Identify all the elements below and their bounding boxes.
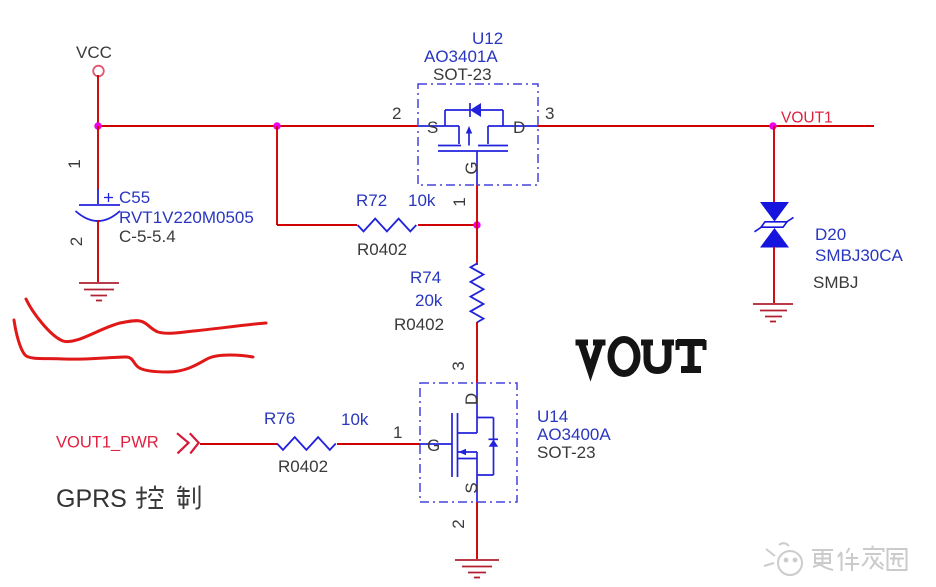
wire C55 bottom — [97, 220, 99, 282]
port chevrons — [177, 433, 199, 453]
U14 dashed box — [420, 383, 517, 502]
svg-text:R72: R72 — [356, 191, 387, 210]
svg-text:VOUT1_PWR: VOUT1_PWR — [56, 434, 159, 452]
transistor U12 arrow — [466, 126, 472, 134]
svg-text:10k: 10k — [341, 410, 369, 429]
svg-text:1: 1 — [393, 423, 402, 442]
ground D20 — [753, 304, 793, 322]
svg-text:SMBJ: SMBJ — [813, 273, 858, 292]
svg-text:R74: R74 — [410, 268, 441, 287]
svg-text:VCC: VCC — [76, 43, 112, 62]
wire R74 to U14 — [476, 322, 478, 383]
resistor R76 — [277, 437, 336, 450]
node junction R72 branch — [273, 122, 280, 129]
capacitor C55 — [76, 189, 121, 221]
wire main bus right — [538, 125, 874, 127]
svg-text:C55: C55 — [119, 188, 150, 207]
ground C55 — [79, 283, 119, 301]
annotation squiggle upper — [26, 299, 266, 342]
svg-text:SOT-23: SOT-23 — [537, 443, 596, 462]
annotation squiggle lower — [14, 320, 253, 372]
svg-text:G: G — [462, 161, 481, 174]
wire port to R76 — [200, 443, 277, 445]
wire D20 to ground — [773, 247, 775, 303]
svg-text:AO3400A: AO3400A — [537, 425, 611, 444]
wire R72 to node — [418, 224, 477, 226]
U12 dashed box — [418, 84, 538, 185]
svg-text:3: 3 — [545, 104, 554, 123]
svg-text:U14: U14 — [537, 407, 568, 426]
transistor U14 body diode triangle — [489, 440, 499, 447]
power port VCC — [76, 43, 112, 76]
svg-text:VOUT1: VOUT1 — [781, 110, 833, 127]
svg-text:G: G — [427, 436, 440, 455]
svg-text:U12: U12 — [472, 29, 503, 48]
wire U14 source to ground — [476, 502, 478, 559]
ground U14 — [455, 560, 499, 578]
svg-text:SOT-23: SOT-23 — [433, 65, 492, 84]
diode D20 TVS — [755, 202, 794, 248]
wire node to R74 — [476, 225, 478, 265]
svg-text:S: S — [427, 118, 438, 137]
node junction VCC — [94, 122, 101, 129]
transistor U12 body diode triangle — [470, 103, 481, 117]
node junction VOUT1 — [769, 122, 776, 129]
wire VCC drop — [97, 75, 99, 126]
transistor U12 body — [418, 103, 538, 185]
node gate junction — [473, 221, 480, 228]
transistor U14 body — [420, 383, 498, 502]
svg-text:C-5-5.4: C-5-5.4 — [119, 227, 176, 246]
resistor R74 — [471, 264, 484, 323]
svg-text:20k: 20k — [415, 291, 443, 310]
resistor R72 — [358, 219, 417, 232]
svg-text:1: 1 — [65, 159, 84, 168]
svg-text:R0402: R0402 — [357, 240, 407, 259]
svg-text:2: 2 — [449, 519, 468, 528]
wire VOUT1 drop — [773, 126, 775, 202]
svg-text:D: D — [513, 118, 525, 137]
svg-text:R0402: R0402 — [278, 457, 328, 476]
svg-text:AO3401A: AO3401A — [424, 47, 498, 66]
svg-text:2: 2 — [392, 104, 401, 123]
wire main bus left — [98, 125, 418, 127]
hanzi zhi — [177, 486, 200, 510]
svg-text:GPRS: GPRS — [56, 485, 127, 513]
big net label VOUT — [576, 340, 706, 374]
svg-text:10k: 10k — [408, 191, 436, 210]
watermark logo — [764, 543, 802, 575]
svg-text:1: 1 — [450, 197, 469, 206]
wire junction2 drop — [276, 126, 278, 225]
svg-text:D: D — [462, 393, 481, 405]
svg-text:R76: R76 — [264, 409, 295, 428]
hanzi kong — [136, 486, 163, 509]
svg-text:S: S — [462, 482, 481, 493]
wire R76 to U14 gate — [337, 443, 420, 445]
svg-text:3: 3 — [449, 361, 468, 370]
wire C55 top — [97, 126, 99, 190]
svg-text:D20: D20 — [815, 225, 846, 244]
transistor U14 arrow — [459, 449, 467, 455]
watermark text — [812, 546, 907, 572]
svg-text:R0402: R0402 — [394, 315, 444, 334]
svg-text:2: 2 — [67, 237, 86, 246]
wire to R72 — [277, 224, 357, 226]
svg-text:SMBJ30CA: SMBJ30CA — [815, 246, 904, 265]
wire node to U12 gate — [476, 185, 478, 225]
svg-text:RVT1V220M0505: RVT1V220M0505 — [119, 208, 254, 227]
